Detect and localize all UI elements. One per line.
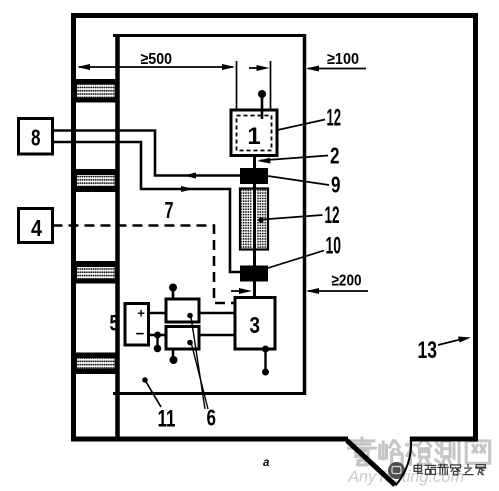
- inner area right: [303, 34, 307, 395]
- dimension ge100 left outside arrow: [249, 65, 270, 71]
- box 6a top stub: [169, 284, 177, 300]
- svg-text:4: 4: [31, 215, 42, 241]
- label 6 two leaders: [191, 317, 216, 431]
- svg-text:≥100: ≥100: [327, 51, 359, 68]
- dimension ge100 right part: [306, 51, 366, 72]
- outer wall bottom right segment: [410, 437, 478, 442]
- leader dot in 6b: [187, 340, 193, 346]
- antenna stub: [261, 94, 264, 119]
- label 11 leader dot: [142, 377, 175, 432]
- wire 8 to block 10: [53, 142, 241, 272]
- wire 8 to block 9: [53, 131, 241, 179]
- box 8 receiver: [19, 119, 53, 155]
- box 3 bottom stub: [262, 346, 269, 376]
- box 6b bottom stub: [170, 349, 178, 364]
- svg-text:6: 6: [207, 405, 217, 431]
- svg-text:2: 2: [330, 143, 340, 169]
- door leaf: [347, 441, 395, 486]
- watermark char 5: [466, 441, 490, 463]
- extension line box1 left face: [236, 61, 238, 110]
- label 12 top: [278, 105, 342, 132]
- label 12 lower: [262, 202, 340, 229]
- svg-text:5: 5: [110, 311, 120, 336]
- wire 6b to 3: [199, 334, 235, 337]
- svg-text:1: 1: [247, 123, 260, 150]
- outer wall left: [71, 13, 76, 441]
- inner area top: [113, 34, 306, 37]
- svg-text:+: +: [137, 306, 145, 321]
- outer wall top: [71, 13, 478, 18]
- block 10: [240, 266, 268, 282]
- door swing arc: [396, 440, 412, 486]
- box 5 supply: [125, 304, 149, 346]
- svg-text:9: 9: [331, 172, 341, 198]
- filter feedthrough unit 3: [76, 261, 116, 284]
- watermark small char 6: [476, 465, 486, 475]
- watermark logo: [388, 462, 405, 479]
- junction dot with stub: [154, 332, 162, 353]
- box 6b: [166, 327, 199, 350]
- svg-text:a: a: [263, 457, 270, 469]
- watermark small char 1: [414, 464, 422, 473]
- box 4 controller: [19, 209, 53, 243]
- inner area left rail: [115, 34, 120, 441]
- watermark small char 4: [451, 465, 461, 475]
- wire 5 to 6a: [149, 312, 167, 315]
- svg-text:11: 11: [158, 406, 176, 433]
- watermark char 3: [407, 439, 431, 465]
- svg-text:7: 7: [165, 197, 174, 223]
- box 1 EUT outer: [231, 110, 277, 156]
- inner area bottom: [113, 392, 306, 395]
- svg-text:10: 10: [326, 233, 342, 260]
- dashed line 4 to box 3: [53, 226, 236, 304]
- filter feedthrough unit 2: [76, 169, 116, 192]
- antenna dot: [258, 90, 266, 98]
- box 1 inner dashed: [237, 116, 272, 151]
- chain wire: [253, 156, 256, 298]
- watermark char 2: [380, 441, 402, 464]
- box 3 EUT: [235, 298, 275, 350]
- svg-text:12: 12: [327, 105, 342, 132]
- label 10: [268, 233, 341, 269]
- block 9: [240, 168, 268, 184]
- box 6a: [166, 299, 199, 322]
- svg-text:≥500: ≥500: [141, 51, 173, 68]
- outer wall bottom left segment: [71, 437, 348, 442]
- leader dot in 6a: [187, 313, 193, 319]
- svg-text:8: 8: [31, 125, 41, 151]
- svg-text:−: −: [136, 326, 145, 343]
- watermark char 4: [436, 439, 460, 464]
- watermark char 1: [349, 438, 376, 465]
- filter feedthrough unit 1: [76, 79, 116, 103]
- hatched absorber 12: [240, 188, 268, 250]
- wire 6a to 3: [199, 312, 235, 315]
- svg-text:≥200: ≥200: [332, 273, 362, 290]
- svg-text:3: 3: [250, 312, 261, 338]
- label 9: [268, 172, 341, 198]
- dimension ge200 left outside arrow: [231, 288, 252, 294]
- wire 5 to 6b: [149, 334, 167, 337]
- dimension ge500: [77, 51, 235, 70]
- label 13 leader arrow to wall: [418, 337, 472, 365]
- watermark small char 5: [464, 465, 473, 475]
- extension line box1 right face: [270, 61, 272, 110]
- outer wall right: [473, 13, 478, 441]
- filter feedthrough unit 4: [76, 353, 116, 375]
- svg-text:12: 12: [325, 202, 340, 229]
- label 2 leader arrow: [257, 143, 340, 169]
- svg-text:13: 13: [418, 337, 438, 364]
- dimension ge200 right part: [306, 273, 368, 295]
- watermark small char 2: [425, 465, 436, 474]
- watermark small char 3: [438, 464, 449, 474]
